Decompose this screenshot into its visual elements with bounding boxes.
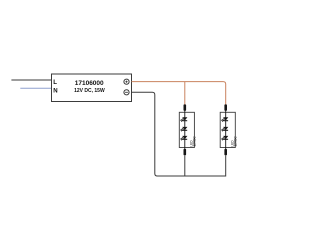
LED2 body	[220, 112, 235, 147]
LED module 2	[220, 104, 237, 155]
terminal blob top LED2	[224, 104, 227, 110]
svg-text:N: N	[53, 87, 57, 94]
wire red branch to LED1	[184, 82, 186, 105]
LED driver U1 body	[52, 74, 132, 102]
wire 0V return black	[132, 92, 226, 176]
diode D1b	[180, 127, 187, 132]
diode D2c	[221, 136, 228, 141]
diode D1a	[180, 117, 187, 122]
wire L input	[11, 79, 51, 81]
svg-text:12V DC, 15W: 12V DC, 15W	[74, 88, 105, 94]
diode D1c	[180, 136, 187, 141]
terminal blob bottom LED2	[224, 149, 227, 155]
LED1 internal wire	[184, 111, 186, 150]
terminal +	[124, 79, 129, 84]
wire black branch from LED1	[184, 155, 186, 176]
LED2 internal wire	[225, 111, 227, 150]
LED1 body	[179, 112, 194, 147]
diode D2a	[221, 117, 228, 122]
terminal blob top LED1	[184, 104, 187, 110]
terminal -	[124, 90, 129, 95]
wire +12V red	[132, 82, 226, 105]
LED module 1	[179, 104, 196, 155]
wire N input	[20, 87, 51, 89]
svg-text:L: L	[53, 79, 57, 86]
svg-text:17106000: 17106000	[75, 80, 104, 87]
terminal blob bottom LED1	[184, 149, 187, 155]
diode D2b	[221, 127, 228, 132]
